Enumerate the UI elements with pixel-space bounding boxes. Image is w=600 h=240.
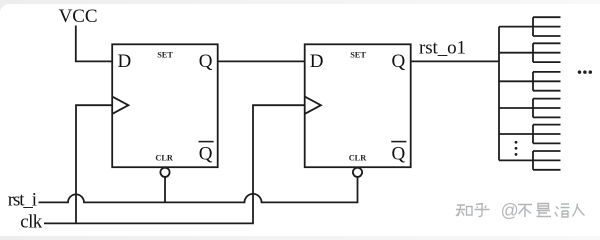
load L3: [533, 72, 561, 91]
wire rst_i with hops to U1 CLR and U2 CLR: [39, 177, 358, 202]
svg-text:D: D: [310, 51, 324, 72]
CLR bubble U1: [160, 168, 169, 177]
load L1: [533, 17, 561, 36]
CLR bubble U2: [353, 168, 362, 177]
svg-text:CLR: CLR: [349, 154, 368, 163]
fanout bus vertical: [498, 27, 500, 161]
wire U1 Q to U2 D: [218, 60, 305, 62]
watermark Zhihu @buShiShiRen: [456, 204, 490, 217]
wire branch 1: [499, 26, 533, 28]
clock triangle U2: [305, 97, 321, 114]
load L4: [533, 99, 561, 118]
svg-text:Q: Q: [199, 51, 213, 72]
svg-text:Q: Q: [392, 51, 406, 72]
svg-text:SET: SET: [350, 50, 366, 59]
wire branch 4: [499, 107, 533, 109]
ellipsis dots horizontal: [578, 70, 592, 74]
wire clk riser to U1 clock: [76, 105, 112, 223]
net rst_o1 wire U2 Q to fanout bus: [411, 60, 499, 62]
wire clk to U2 clock: [44, 105, 305, 223]
flip-flop U1 box: [112, 44, 218, 167]
wire VCC drop to U1 D input: [76, 26, 112, 62]
wire branch 3: [499, 80, 533, 82]
load L5: [533, 125, 561, 144]
wire branch 5: [499, 133, 533, 135]
svg-text:Q: Q: [199, 143, 213, 164]
svg-text:clk: clk: [20, 211, 43, 232]
svg-text:@: @: [501, 201, 519, 221]
wire branch 6: [499, 159, 533, 161]
svg-text:CLR: CLR: [155, 154, 174, 163]
wire branch 2: [499, 52, 533, 54]
ellipsis dots vertical: [515, 141, 518, 156]
svg-text:rst_o1: rst_o1: [419, 38, 466, 59]
pin label Q-bar U2: [391, 142, 406, 165]
svg-text:VCC: VCC: [59, 6, 98, 27]
svg-text:SET: SET: [157, 50, 173, 59]
pin label Q-bar U1: [199, 142, 214, 165]
svg-text:Q: Q: [392, 143, 406, 164]
svg-text:rst_i: rst_i: [8, 189, 37, 210]
flip-flop U2 box: [305, 44, 411, 167]
svg-text:D: D: [118, 51, 132, 72]
clock triangle U1: [112, 97, 128, 114]
load L2: [533, 43, 561, 62]
load L6: [533, 151, 561, 170]
wire U1 CLR riser: [164, 177, 166, 202]
